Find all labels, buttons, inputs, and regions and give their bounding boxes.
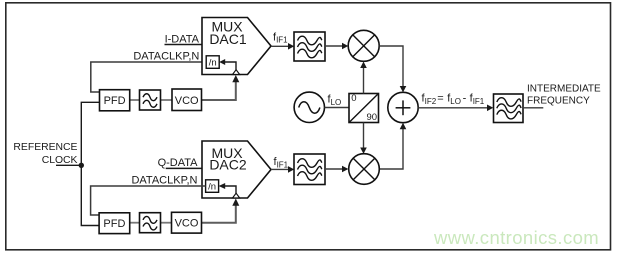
mixer M2 (349, 154, 380, 185)
block PFD2 (99, 213, 130, 234)
svg-text:DAC2: DAC2 (209, 157, 247, 173)
wire DATACLKP,N feedback DAC1 to PFD1 (91, 62, 206, 92)
wire Q-DATA (166, 167, 202, 169)
svg-text:/n: /n (208, 182, 216, 193)
svg-text:LO: LO (450, 97, 461, 106)
wire LF2 to VCO2 (161, 222, 172, 224)
wire combiner to output filter (418, 105, 493, 112)
node fIF1 (top) (273, 31, 288, 44)
node DATACLKP,N (bottom) (131, 175, 197, 187)
wire VCO2 to DAC2 clock input (202, 199, 240, 223)
wire LO to phase splitter (325, 107, 350, 109)
wire filter FL1 to mixer M1 (325, 43, 348, 50)
svg-text:www.cntronics.com: www.cntronics.com (433, 227, 599, 248)
svg-text:DATACLKP,N: DATACLKP,N (133, 50, 199, 62)
svg-text:=: = (437, 93, 443, 105)
mixer M1 (348, 30, 379, 61)
wire PFD1 to loop filter LF1 (130, 99, 140, 101)
svg-text:/n: /n (209, 58, 217, 69)
wire filter FL2 to mixer M2 (325, 166, 348, 173)
svg-text:Q-DATA: Q-DATA (158, 157, 199, 169)
svg-text:FREQUENCY: FREQUENCY (527, 96, 590, 107)
wire mixer M1 to combiner (379, 46, 406, 92)
wire VCO1 to DAC1 clock input (202, 75, 240, 100)
wire reference clock vertical (81, 102, 99, 225)
divider /n (DAC1) (206, 56, 219, 69)
node INTERMEDIATE FREQUENCY (527, 84, 601, 107)
phase splitter 0/90 (349, 93, 379, 123)
wire DAC1 clock tap to divider (219, 59, 236, 70)
filter FL3 (output bandpass) (494, 94, 524, 123)
svg-text:-: - (463, 93, 467, 105)
node REFERENCE CLOCK (13, 142, 77, 166)
loop filter LF2 (140, 213, 161, 233)
block PFD1 (100, 90, 130, 111)
svg-text:INTERMEDIATE: INTERMEDIATE (527, 84, 601, 95)
block VCO2 (172, 212, 202, 233)
svg-text:I-DATA: I-DATA (165, 33, 200, 45)
pin DAC1 clock input triangle (233, 70, 240, 75)
svg-text:PFD: PFD (104, 95, 126, 107)
svg-text:90: 90 (367, 112, 378, 123)
wire DAC2 to filter FL2 (271, 166, 294, 173)
wire PFD2 to loop filter LF2 (130, 222, 140, 224)
filter FL2 (bandpass) (294, 154, 325, 185)
svg-text:DATACLKP,N: DATACLKP,N (131, 175, 197, 187)
node I-DATA (165, 33, 200, 45)
wire DAC2 clock tap to divider (219, 183, 236, 193)
wire DAC1 to filter FL1 (271, 43, 294, 50)
watermark www.cntronics.com (433, 227, 599, 248)
wire mixer M2 to combiner (379, 123, 406, 169)
svg-text:IF2: IF2 (425, 97, 437, 106)
svg-text:REFERENCE: REFERENCE (13, 142, 77, 153)
oscillator LO (294, 92, 324, 122)
block VCO1 (172, 89, 202, 111)
wire LF1 to VCO1 (161, 99, 173, 101)
divider /n (DAC2) (206, 180, 219, 193)
wire reference clock stub (56, 164, 81, 166)
wire splitter 90 to mixer M2 (360, 123, 367, 154)
svg-text:CLOCK: CLOCK (42, 155, 78, 166)
node fLO (328, 93, 342, 106)
loop filter LF1 (140, 90, 161, 110)
node fIF2 = fLO - fIF1 (422, 93, 485, 107)
wire DATACLKP,N feedback DAC2 to PFD2 (91, 186, 206, 215)
filter FL1 (bandpass) (294, 32, 325, 61)
node fIF1 (bottom) (274, 156, 289, 169)
pin DAC2 clock input triangle (233, 193, 240, 198)
svg-text:DAC1: DAC1 (209, 31, 247, 47)
node DATACLKP,N (top) (133, 50, 199, 62)
wire splitter 0 to mixer M1 (360, 62, 367, 94)
svg-text:IF1: IF1 (473, 97, 485, 106)
svg-text:0: 0 (351, 93, 356, 104)
wire I-DATA (165, 44, 203, 46)
junction reference clock (79, 163, 84, 168)
node Q-DATA (158, 157, 199, 169)
svg-text:VCO: VCO (175, 218, 199, 230)
combiner S1 (388, 92, 418, 122)
wire output (523, 107, 543, 109)
svg-text:PFD: PFD (103, 218, 125, 230)
svg-text:VCO: VCO (175, 95, 199, 107)
DAC U2: MUX DAC2 (202, 141, 271, 198)
DAC U1: MUX DAC1 (202, 18, 271, 75)
